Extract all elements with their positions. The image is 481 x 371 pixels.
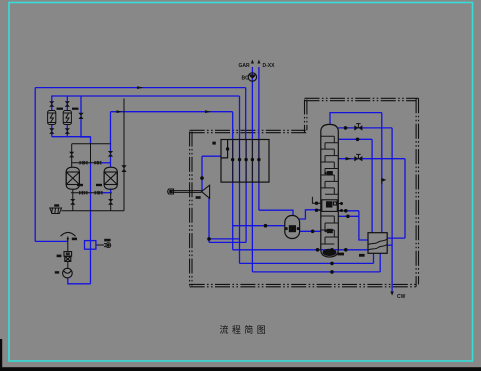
ejector feed dot: [200, 176, 204, 180]
wire filter bypass leg: [81, 96, 91, 144]
wire column line 139.3: [338, 138, 372, 140]
wire tube5 to drum top: [259, 210, 293, 216]
valve on vessel1 riser: [69, 152, 74, 158]
furnace tube junction dots: [226, 147, 261, 161]
column tag lower: [324, 229, 332, 233]
wire line 271.9: [252, 271, 380, 273]
border step vertical: [305, 100, 307, 133]
valve above F1: [49, 101, 54, 107]
border bottom side: [190, 284, 418, 286]
wire furnace tube2 extension: [239, 140, 241, 263]
wire filter2 riser: [66, 96, 68, 110]
control valve: [64, 252, 72, 262]
valve pair 1 on header 162.8: [80, 161, 84, 165]
exchanger label: [359, 254, 365, 257]
wire ejector suction vertical: [201, 156, 203, 191]
wire vessel2 bottom riser: [110, 193, 112, 211]
wire column line 158.7: [338, 158, 405, 160]
furnace label: [212, 142, 215, 145]
wire ejector top feed horizontal: [202, 155, 222, 157]
wire drum right to column: [300, 230, 322, 232]
wire vent leg: [67, 237, 69, 252]
wire pump discharge loop: [68, 278, 91, 284]
wire rail B drop to furnace tube 2: [239, 96, 241, 140]
wire rail A drop to furnace tube 3: [245, 88, 247, 140]
furnace tubes: [233, 140, 259, 183]
wire drum top to column: [300, 210, 322, 219]
wire sample box stem: [96, 244, 104, 246]
wire drop to exchanger top 2: [371, 139, 373, 232]
vent arrow: [67, 238, 69, 242]
border right side: [416, 98, 418, 286]
wire mid vertical upper: [90, 144, 92, 163]
border left side: [190, 132, 192, 286]
wire GAR line 2 down to furnace tube 5: [258, 67, 260, 210]
valve below F2: [65, 128, 70, 134]
vessel MR2 label: [96, 184, 102, 186]
wire filter bottom header: [52, 136, 91, 138]
wire header 192.7 blue segment: [103, 192, 112, 194]
wire exchanger bottom port riser 1: [373, 253, 375, 263]
wire line 263.4: [240, 262, 374, 264]
wire mid vertical long: [90, 163, 92, 284]
wire column overhead up-over: [330, 113, 382, 125]
wire drop to exchanger right port: [404, 159, 406, 238]
wire vessel2 bottom stub: [110, 189, 112, 193]
reflux drum D1: [285, 216, 300, 239]
GAR riser arrowhead 2: [257, 60, 260, 64]
valve on vessel2 riser: [108, 151, 113, 157]
wire filter2 bottom stub: [66, 125, 68, 137]
wire side draw drop: [359, 211, 368, 240]
wire drum feed from tube1: [233, 225, 285, 227]
P flag on overhead drop: [382, 179, 385, 184]
valve pair 1 on header 192.7: [79, 191, 83, 195]
blowdown boat: [50, 208, 62, 214]
valve on vessel2 bottom riser: [108, 199, 113, 205]
border top-right segment: [305, 98, 419, 100]
arrow on rail C left: [117, 110, 123, 113]
wire exchanger bottom port riser 2: [379, 253, 381, 272]
valve on bypass leg: [78, 113, 83, 119]
wire column side line 216.3: [338, 215, 359, 217]
vent label: [72, 238, 77, 241]
valve pair 2 on header 162.8: [94, 161, 98, 165]
wire furnace tube3 extension: [245, 140, 247, 242]
drum tag: [285, 225, 299, 232]
valve with stem on line 127.9: [354, 124, 362, 131]
svg-text:GAR: GAR: [239, 63, 251, 69]
sample cooler blue box: [85, 241, 96, 250]
wire ejector tail vertical: [208, 198, 210, 242]
vent hood: [61, 232, 76, 236]
filter F1 label: [57, 108, 64, 110]
arrow on rail C right: [205, 110, 211, 113]
valve on right black vertical: [121, 165, 126, 172]
wire right black vertical: [123, 99, 125, 211]
wire header 192.7: [71, 192, 103, 194]
wire header 162.8: [72, 162, 101, 164]
valve below F1: [49, 128, 54, 134]
wire GAR line 1 down to furnace tube 4: [251, 67, 253, 272]
valve on vessel1 bottom riser: [70, 199, 75, 205]
column T1 shell: [321, 124, 339, 257]
blower circle: [248, 73, 256, 81]
wire column side line 210.8: [338, 210, 359, 212]
vessel MR1 label: [77, 184, 83, 186]
vessel MR2: [104, 167, 117, 189]
sample point symbol: [104, 243, 111, 248]
valve above F2: [65, 101, 70, 107]
blowdown boat label: [54, 204, 59, 206]
bottom black strip: [0, 367, 481, 371]
wire left bottom horizontal to vent leg: [35, 240, 68, 242]
column trays upper: [321, 136, 339, 194]
column mid box left elbow: [312, 197, 316, 203]
wire cross line 242.4: [209, 241, 246, 243]
valve pair 2 on header 192.7: [95, 191, 99, 195]
filter F1 body: [48, 111, 56, 125]
column mid box dots: [315, 202, 343, 213]
filter F2 body: [63, 111, 71, 125]
ejector pipe: [171, 191, 202, 193]
wire CW vertical: [391, 128, 393, 294]
column trays lower: [321, 216, 339, 244]
svg-text:流程简图: 流程简图: [220, 324, 270, 335]
exchanger E1: [368, 233, 387, 254]
wire rail C: [111, 111, 233, 113]
furnace box: [221, 140, 269, 183]
column tag upper: [324, 171, 332, 175]
control valve label: [57, 255, 62, 258]
svg-text:D-XX: D-XX: [263, 63, 276, 69]
wire vessel1 bottom riser: [72, 189, 74, 211]
wire filter1 riser: [51, 96, 53, 110]
ejector inlet cap: [168, 189, 174, 194]
CW outlet arrow: [390, 292, 394, 296]
column mid detail box: [317, 200, 343, 212]
arrow on rail A: [137, 86, 144, 89]
filter F2 label: [72, 108, 79, 110]
ejector cone: [202, 185, 210, 198]
wire exchanger right stub 238.1: [387, 237, 405, 239]
wire valve-pump leg: [67, 262, 69, 269]
wire left header vertical: [34, 88, 36, 242]
ejector tail dot: [207, 237, 211, 241]
battery-limit dash-dot border (double line): [190, 98, 419, 286]
wire exchanger right stub 245.2: [387, 244, 392, 246]
wire blowdown line: [62, 210, 125, 212]
pump P1 label: [55, 271, 59, 273]
valve with stem on line 158.7: [354, 154, 362, 161]
wire filter1 bottom stub: [51, 125, 53, 137]
arrow on line 158.7: [346, 157, 352, 160]
sample point label: [104, 239, 110, 242]
svg-text:CW: CW: [397, 294, 406, 300]
left edge black mark: [0, 339, 2, 371]
wire long line to exchanger inlet: [233, 249, 368, 251]
wire cross line 238.9: [209, 238, 240, 240]
wire rail B: [51, 95, 239, 97]
wire rail A top: [35, 87, 246, 89]
wire header 162.8 blue segment: [101, 162, 111, 164]
wire overhead drop to exchanger top: [381, 113, 383, 233]
vessel MR1: [66, 167, 79, 189]
wire rail C drop / furnace tube 1 / to long line: [232, 112, 234, 250]
ejector label: [196, 196, 201, 199]
wire header 143.8: [72, 143, 111, 145]
pump P1: [63, 268, 73, 278]
junction dots right side: [264, 126, 360, 274]
wire vessel1 riser: [71, 144, 73, 168]
wire column line 127.9: [338, 127, 392, 129]
wire vessel2 riser blue: [110, 112, 112, 167]
GAR riser arrowhead 1: [251, 60, 254, 64]
border top-left segment: [190, 130, 307, 132]
column bottom label blob: [323, 249, 345, 256]
